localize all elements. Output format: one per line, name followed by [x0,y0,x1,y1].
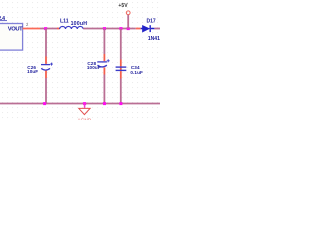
junction dot: C26 branch on bottom rail [43,102,46,105]
wire: top rail from pin to inductor [40,28,57,30]
pin 2 of VOUT connector (red pin segment) [23,28,40,30]
svg-text:+5V: +5V [118,3,128,9]
svg-text:10uF: 10uF [27,69,38,74]
capacitor C34 bottom plate [116,69,127,71]
junction dot: +5V stem on top rail [127,27,130,30]
ground AGND: stub [84,104,86,108]
junction dot: C28 branch on bottom rail [103,102,106,105]
ground AGND: triangle [79,108,90,114]
svg-text:0.1uF: 0.1uF [130,70,143,75]
svg-text:1N4148: 1N4148 [148,36,160,42]
capacitor C28 plus sign [107,59,110,62]
junction dot: C34 branch on top rail [119,27,122,30]
diode D17: cathode lead [151,28,155,30]
capacitor C26 bottom plate (arc) [41,68,50,70]
capacitor C26 bottom pin (red) [45,71,47,78]
power port +5V: circle [126,11,130,15]
capacitor C34 bottom pin (red) [120,71,122,78]
wire: top rail right of diode to edge [154,28,160,30]
wire: C34 branch upper (mauve) [120,29,122,60]
svg-text:100uH: 100uH [71,21,88,27]
svg-text:L11: L11 [60,19,69,25]
svg-text:2.4: 2.4 [0,16,5,22]
wire: bottom rail (full width) [0,103,160,105]
inductor L11 coil [60,26,84,29]
svg-text:VOUT: VOUT [8,26,23,32]
wire: C34 branch lower (mauve) [120,79,122,104]
capacitor C28 top pin (red) [103,54,105,61]
wire: C28 branch lower (mauve) [103,75,105,104]
capacitor C26 plus sign [50,63,53,66]
wire: top rail from inductor to diode anode [83,28,136,30]
connector sheet-entry box (VOUT source), clipped at left edge [0,24,23,51]
svg-text:AGND: AGND [77,118,91,121]
wire: C26 branch upper (mauve) [45,29,47,57]
power port +5V: stem wire [127,15,129,29]
junction dot: C28 branch on top rail [103,27,106,30]
underline under designator text [0,20,7,22]
junction dot: ground stub on bottom rail [83,102,86,105]
capacitor C28 bottom pin (red) [103,67,105,74]
wire: C28 branch upper (mauve) [103,29,105,55]
diode D17: anode lead (blue) [141,28,143,30]
wire: red stub at inductor left lead [57,28,60,30]
junction dot: VOUT branch on top rail [44,27,47,30]
svg-text:100uF: 100uF [87,65,101,70]
capacitor C26 top plate [41,64,50,66]
diode D17: triangle [143,26,150,32]
capacitor C34 top plate [116,66,127,68]
capacitor C34 top pin (red) [120,60,122,72]
capacitor C28 bottom plate (arc) [98,65,107,67]
capacitor C28 top plate [97,61,107,63]
wire: C26 branch lower (mauve) [45,78,47,104]
diode D17: cathode bar [150,25,151,32]
svg-text:D17: D17 [147,19,156,25]
capacitor C26 top pin (red) [45,57,47,64]
junction dot: C34 branch on bottom rail [119,102,122,105]
diode D17: anode pin (red) [136,28,141,30]
